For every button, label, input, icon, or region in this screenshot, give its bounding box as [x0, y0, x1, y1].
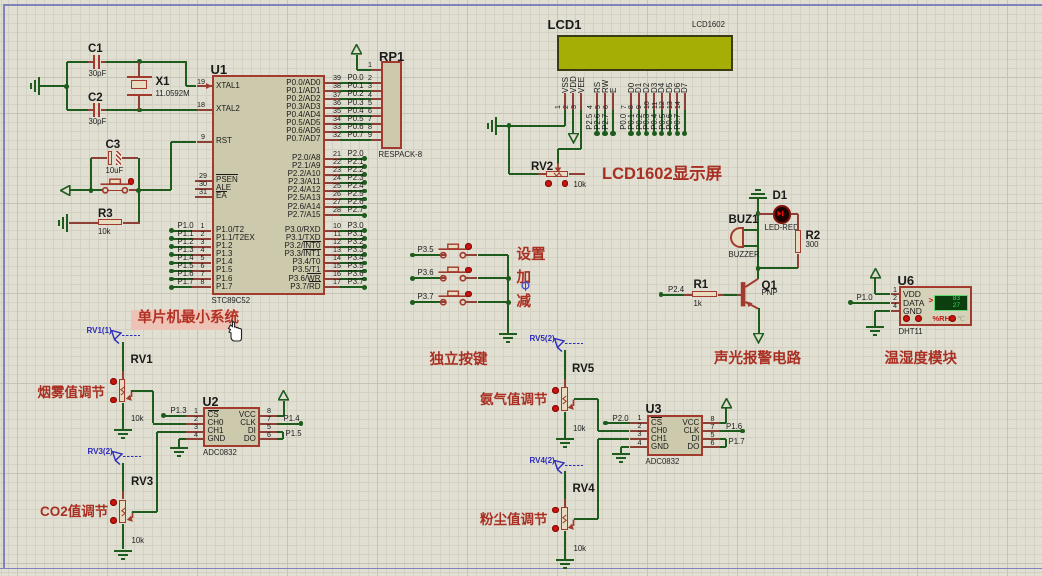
marker dashes [122, 335, 140, 337]
pin [192, 270, 211, 272]
blue marker glyph [520, 280, 531, 291]
wire [101, 61, 106, 63]
value 10k [131, 415, 144, 423]
wire [152, 391, 154, 424]
wire [684, 110, 686, 134]
net label P2.4 [348, 182, 364, 190]
RV3 indicator [110, 517, 117, 524]
wire [340, 174, 364, 176]
net label P3.6 [418, 269, 434, 277]
lcd pin name D0 [627, 82, 636, 92]
wire [171, 246, 192, 248]
chip U1 label [211, 63, 228, 77]
buzzer lead [744, 245, 758, 247]
wire [465, 301, 477, 303]
wire [171, 141, 196, 143]
wire [67, 61, 89, 63]
RV2 wiper mark [553, 172, 563, 177]
pin number [201, 278, 205, 286]
wire [138, 190, 140, 222]
lcd pin D7 [684, 93, 686, 110]
label C1 [88, 43, 103, 55]
RV4 indicator [552, 525, 559, 532]
node P3.6 [362, 277, 367, 282]
net label P2.0 [348, 150, 364, 158]
wire [725, 439, 727, 447]
pin name [288, 203, 321, 211]
pin [325, 98, 340, 100]
RV2 indicator [545, 180, 552, 187]
wire [340, 214, 364, 216]
pin name [216, 283, 232, 291]
wire [90, 158, 92, 191]
wire [340, 246, 364, 248]
resistor R2 [795, 230, 801, 253]
buzzer BUZ1 label [729, 214, 759, 226]
marker dashes [565, 343, 583, 345]
lcd pin D0 [630, 93, 632, 110]
lcd display LCD1602 [557, 35, 733, 71]
pin number 7 [267, 415, 271, 423]
pin [325, 190, 340, 192]
red text 减 [517, 295, 532, 310]
wire [557, 149, 559, 164]
wire [850, 302, 890, 304]
pin [195, 180, 212, 182]
value STC89C52 [212, 297, 251, 305]
capacitor C1 [93, 55, 101, 69]
pin [703, 422, 720, 424]
pin number [333, 107, 341, 115]
pin RP1 [371, 90, 381, 92]
wire [340, 90, 370, 92]
sensor U6 label [898, 274, 915, 288]
pin name [216, 266, 232, 274]
pin [325, 166, 340, 168]
wire [340, 158, 364, 160]
pin RP1 [371, 107, 381, 109]
red text 粉尘值调节 [480, 513, 548, 527]
pin number 8 [267, 407, 271, 415]
pin number [201, 254, 205, 262]
pin [325, 131, 340, 133]
pin [186, 415, 203, 417]
red text 设置 [517, 248, 546, 263]
pot lead [122, 371, 124, 379]
wire [340, 123, 370, 125]
pin number [333, 150, 341, 158]
pin [260, 438, 278, 440]
wire [725, 408, 727, 423]
wire [574, 518, 598, 520]
crystal X1 [127, 76, 152, 95]
pin name [288, 178, 320, 186]
transistor Q1 label [762, 280, 777, 292]
pin [325, 278, 340, 280]
lcd pin name RS [593, 81, 602, 92]
pin number [333, 182, 341, 190]
pin DATA [891, 302, 899, 304]
value 10k [574, 181, 587, 189]
pin name GND [903, 307, 922, 316]
wire [153, 423, 187, 425]
pin [192, 246, 211, 248]
pin name [286, 135, 320, 143]
wire [88, 109, 93, 111]
node P1.3 [161, 413, 166, 418]
pot lead [564, 412, 566, 420]
net label P1.5 [178, 262, 194, 270]
wire [508, 126, 510, 175]
node P0.5 [667, 131, 672, 136]
pin name [286, 103, 320, 111]
pin name DATA [903, 299, 924, 308]
potentiometer RV2 [546, 171, 568, 177]
lcd pin name RW [601, 79, 610, 92]
pin [325, 115, 340, 117]
lcd pin name VEE [577, 76, 586, 92]
wire [478, 277, 509, 279]
pin [325, 214, 340, 216]
net label P1.4 [284, 415, 300, 423]
pin name VDD [903, 290, 921, 299]
pin name [216, 275, 232, 283]
wire [478, 301, 509, 303]
node P3.5 [362, 269, 367, 274]
wire [277, 438, 283, 440]
pot lead [564, 499, 566, 507]
dht indicator [915, 315, 922, 322]
wire [67, 109, 89, 111]
potentiometer RV5 [561, 387, 567, 410]
push button P3.7 [437, 288, 473, 307]
wire [171, 230, 192, 232]
pin [260, 431, 278, 433]
red text 氨气值调节 [480, 393, 548, 407]
pin number [333, 174, 341, 182]
buzzer lead [744, 229, 758, 231]
wire [277, 423, 301, 425]
lcd pin VEE [580, 93, 582, 110]
pin number [333, 190, 341, 198]
junction [506, 276, 511, 281]
node P1.4 [299, 421, 304, 426]
value RESPACK-8 [379, 151, 423, 159]
wire [101, 109, 106, 111]
pin number [201, 246, 205, 254]
pin XTAL2 [197, 109, 212, 111]
wire [178, 439, 180, 446]
net label P2.6 [594, 113, 603, 129]
wire [564, 110, 566, 126]
pin name [292, 258, 320, 266]
node P1.2 [169, 244, 174, 249]
pin name [687, 443, 699, 451]
wire [340, 166, 364, 168]
buzzer BUZ1 [730, 227, 744, 249]
pin [325, 123, 340, 125]
wire [340, 262, 364, 264]
node P1.0 [848, 300, 853, 305]
pin number [638, 422, 642, 430]
transistor Q1 PNP [738, 276, 762, 312]
potentiometer RV3 [119, 500, 125, 523]
wire [874, 311, 876, 326]
red text 温湿度模块 [885, 352, 958, 367]
wire [122, 342, 124, 371]
pin number [638, 439, 642, 447]
led lead [791, 213, 798, 215]
lcd pin name D3 [650, 82, 659, 92]
pin RP1 [371, 115, 381, 117]
red text 独立按键 [430, 353, 488, 368]
wire [164, 415, 187, 417]
wire [564, 471, 566, 507]
pin [192, 278, 211, 280]
pin name [216, 176, 238, 184]
pin number [333, 246, 341, 254]
wire [620, 447, 622, 453]
R1 lead [684, 294, 692, 296]
RV5 indicator [552, 405, 559, 412]
highlight box [131, 310, 238, 331]
lcd pin number 2 [563, 105, 571, 109]
node P3.4 [362, 261, 367, 266]
wire [340, 198, 364, 200]
wire [720, 438, 726, 440]
wire [465, 254, 477, 256]
wire [340, 107, 370, 109]
dht %RH [933, 315, 951, 323]
RV5 wiper arrow [567, 398, 577, 412]
pin RP1 [371, 82, 381, 84]
node P0.7 [682, 131, 687, 136]
pin RP1 [371, 139, 381, 141]
pin [325, 270, 340, 272]
node P1.7 [169, 285, 174, 290]
power [278, 390, 289, 401]
ground [114, 550, 132, 562]
pin number [333, 278, 341, 286]
pin number [333, 262, 341, 270]
wire [720, 446, 726, 448]
value PNP [762, 289, 778, 297]
pin name [284, 242, 320, 250]
junction [136, 188, 141, 193]
lcd pin number 7 [621, 105, 629, 109]
wire [340, 206, 364, 208]
pin number [194, 431, 198, 439]
wire [621, 446, 630, 448]
wire [596, 110, 598, 134]
marker dashes [565, 465, 583, 467]
pin number [333, 198, 341, 206]
net label P2.1 [348, 158, 364, 166]
net label P1.6 [726, 423, 742, 431]
net label P3.5 [418, 246, 434, 254]
pin name [286, 87, 320, 95]
pin arrow XTAL1 [206, 83, 212, 89]
power arrow down [568, 133, 579, 144]
lcd pin E [612, 93, 614, 110]
pin number 6 [267, 431, 271, 439]
ground [30, 77, 40, 95]
pin number [333, 82, 341, 90]
wire [186, 85, 196, 87]
wire [661, 110, 663, 134]
net label P1.6 [178, 270, 194, 278]
node P1.3 [169, 252, 174, 257]
pin number 4 [893, 302, 897, 310]
RV3 indicator [110, 499, 117, 506]
pin number [368, 123, 372, 131]
lcd pin VSS [564, 93, 566, 110]
marker dashes [123, 456, 141, 458]
pin number 5 [267, 423, 271, 431]
power [870, 268, 881, 279]
pin name [651, 443, 669, 451]
net label P1.2 [178, 238, 194, 246]
pin number 18 [197, 101, 205, 109]
pin RP1 [371, 131, 381, 133]
pin number [201, 222, 205, 230]
wire [106, 109, 197, 111]
pin number [333, 115, 341, 123]
value 1k [694, 300, 702, 308]
wire [574, 398, 598, 400]
pin [325, 174, 340, 176]
node P1.4 [169, 261, 174, 266]
potentiometer RV3 label [131, 476, 153, 488]
pin VDD [891, 293, 899, 295]
wire [171, 270, 192, 272]
net label P0.3 [643, 113, 652, 129]
wire [157, 431, 186, 433]
pin number [368, 131, 372, 139]
pin [192, 262, 211, 264]
wire [507, 255, 509, 333]
node P1.5 [169, 269, 174, 274]
pin number [333, 222, 341, 230]
wire [669, 110, 671, 134]
pot wiper mark [121, 507, 126, 517]
pin name [216, 234, 255, 242]
RV2 indicator [562, 180, 569, 187]
pin number 1 [893, 286, 897, 294]
pin name [248, 427, 256, 435]
pin name [208, 411, 219, 419]
wire [122, 524, 124, 550]
net label P0.2 [636, 113, 645, 129]
value 30pF [89, 118, 107, 126]
net label P2.6 [348, 198, 364, 206]
pin GND [891, 310, 899, 312]
wire [70, 189, 103, 191]
pin name [292, 162, 320, 170]
net label P0.0 [348, 74, 364, 82]
lcd LCD1 label [548, 18, 582, 32]
value BUZZER [729, 251, 760, 259]
wire [720, 422, 726, 424]
pin name [284, 250, 320, 258]
wire [509, 173, 538, 175]
ground [487, 117, 497, 135]
net label P0.4 [348, 107, 364, 115]
node P3.7 [362, 285, 367, 290]
node P2.2 [362, 172, 367, 177]
wire [356, 55, 358, 71]
wire [478, 254, 509, 256]
net label P3.4 [348, 254, 364, 262]
R3 lead [123, 222, 140, 224]
pin number 6 [711, 439, 715, 447]
potentiometer RV4 [561, 507, 567, 530]
wire [412, 301, 440, 303]
RV4 indicator [552, 507, 559, 514]
wire [558, 148, 581, 150]
ground [612, 453, 630, 465]
lcd pin name D7 [680, 82, 689, 92]
pin number 9 [201, 133, 205, 141]
pin number 19 [197, 78, 205, 86]
pin name [286, 234, 321, 242]
node P1.0 [169, 228, 174, 233]
ground [170, 447, 188, 459]
wire [757, 198, 759, 214]
lcd pin number 11 [652, 101, 660, 108]
wire [340, 278, 364, 280]
ground [58, 214, 68, 232]
wire [758, 267, 798, 269]
pin number [201, 270, 205, 278]
wire [598, 430, 630, 432]
pin name [208, 427, 224, 435]
node P1.6 [740, 429, 745, 434]
wire [598, 438, 630, 440]
net label P2.7 [348, 206, 364, 214]
potentiometer RV5 label [572, 363, 594, 375]
pin name [288, 275, 320, 283]
pin number [201, 238, 205, 246]
pot wiper mark [562, 514, 567, 524]
net label P0.1 [348, 82, 364, 90]
flipped ground [749, 189, 767, 199]
pin name [286, 127, 320, 135]
node P2.0 [603, 421, 608, 426]
dht indicator [949, 315, 956, 322]
pin name [286, 119, 320, 127]
pin name [244, 435, 256, 443]
label X1 [156, 76, 170, 88]
pin number [201, 230, 205, 238]
value 11.0592M [156, 90, 190, 98]
net label P3.6 [348, 270, 364, 278]
button indicator [465, 243, 472, 250]
wire [497, 125, 565, 127]
wire [340, 286, 364, 288]
net label P3.7 [418, 293, 434, 301]
wire [40, 85, 67, 87]
wire [440, 277, 446, 279]
lcd pin name VSS [561, 76, 570, 92]
wire [171, 278, 192, 280]
microcontroller U1 STC89C52 [212, 75, 326, 295]
label C3 [106, 139, 121, 151]
pin [260, 423, 278, 425]
net label P0.7 [348, 131, 364, 139]
net label P1.1 [178, 230, 194, 238]
wire [282, 432, 284, 440]
